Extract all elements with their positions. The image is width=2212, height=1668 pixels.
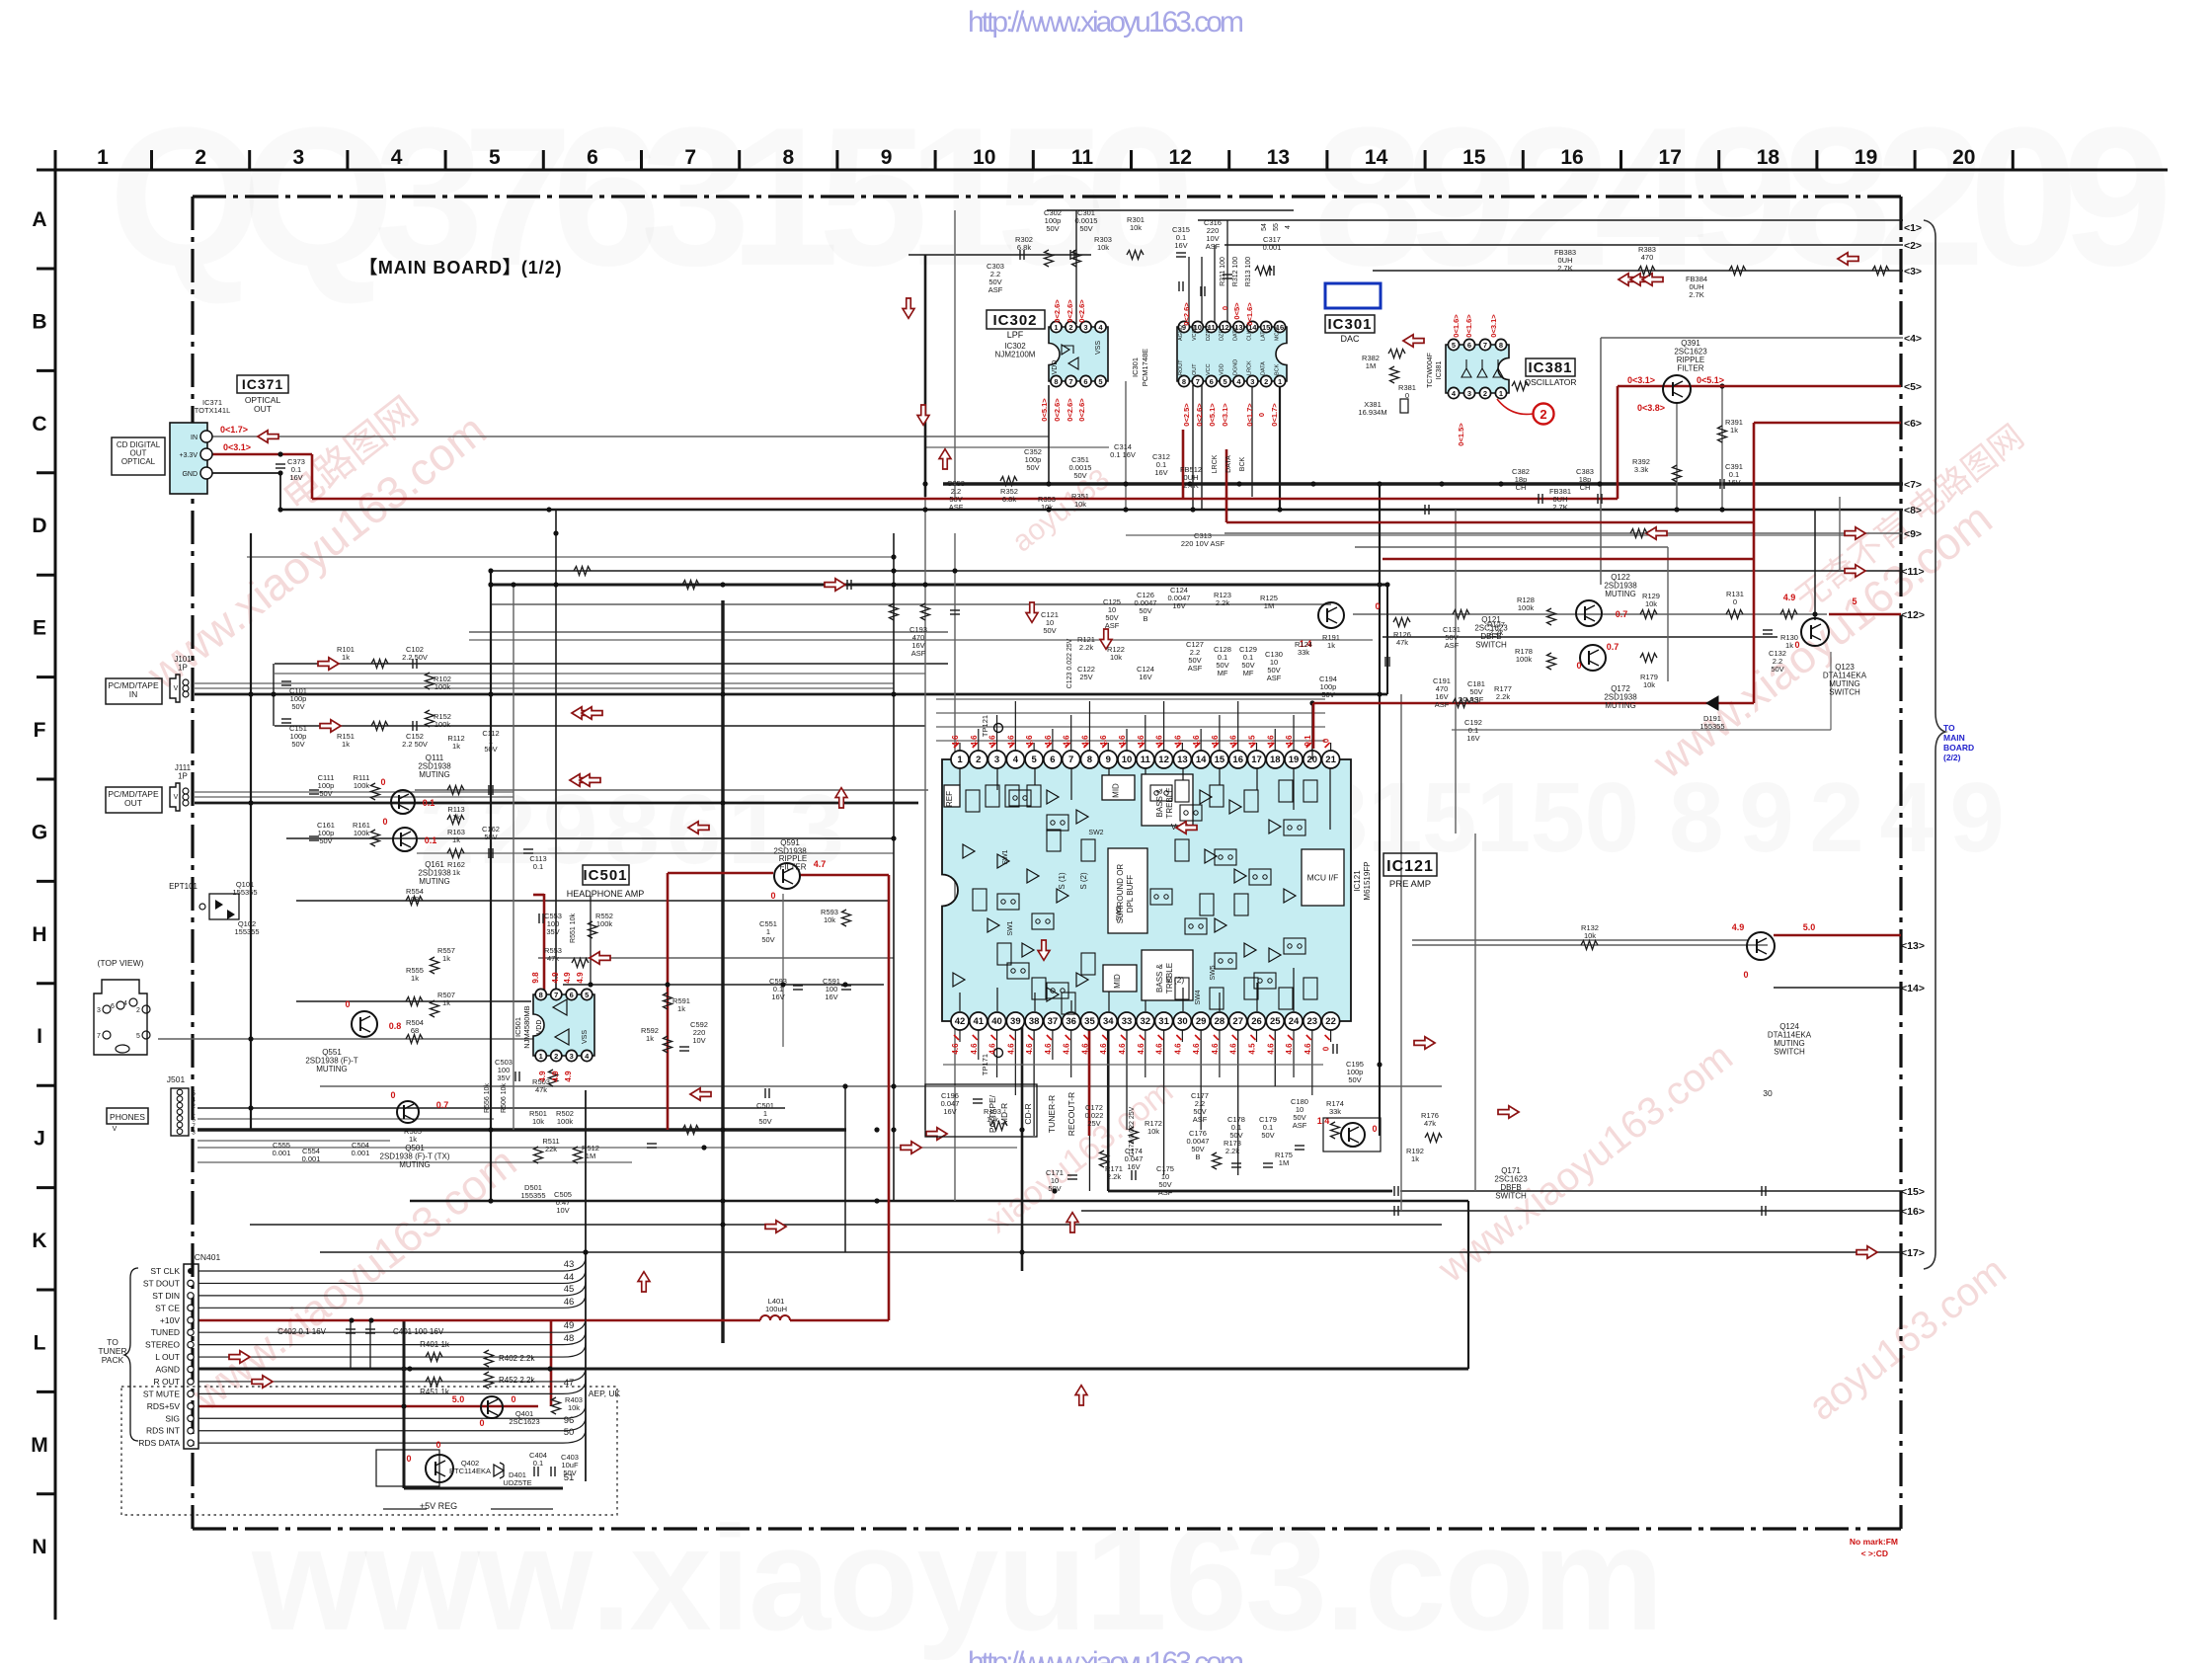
svg-text:IC501: IC501 <box>513 1017 522 1037</box>
svg-text:7: 7 <box>97 1033 101 1040</box>
svg-text:0<1.7>: 0<1.7> <box>1245 403 1254 427</box>
svg-text:VSS: VSS <box>1095 341 1102 355</box>
svg-text:4.6: 4.6 <box>951 735 960 747</box>
svg-text:6.8k: 6.8k <box>1002 495 1016 504</box>
svg-text:48: 48 <box>564 1333 575 1344</box>
svg-text:K: K <box>32 1230 46 1252</box>
svg-text:16V: 16V <box>771 993 784 1001</box>
svg-text:4.6: 4.6 <box>1006 1043 1015 1055</box>
svg-text:OUT: OUT <box>254 404 272 414</box>
svg-text:100k: 100k <box>434 682 451 691</box>
svg-text:0<2.6>: 0<2.6> <box>1195 403 1204 427</box>
svg-text:0<2.6>: 0<2.6> <box>1077 299 1086 323</box>
svg-text:0<2.6>: 0<2.6> <box>1053 398 1062 422</box>
svg-text:10k: 10k <box>1147 1127 1159 1136</box>
svg-text:5.0: 5.0 <box>452 1394 465 1404</box>
svg-text:4.6: 4.6 <box>1303 1043 1312 1055</box>
svg-text:LPF: LPF <box>1007 330 1024 340</box>
svg-text:DATA: DATA <box>1233 327 1239 341</box>
svg-text:15: 15 <box>1462 146 1486 169</box>
svg-text:2.2 50V: 2.2 50V <box>402 653 428 662</box>
svg-text:DGND: DGND <box>1233 359 1239 375</box>
svg-text:155355: 155355 <box>234 927 259 936</box>
svg-text:1k: 1k <box>452 868 460 877</box>
svg-text:FILTER: FILTER <box>1678 364 1704 373</box>
svg-text:10k: 10k <box>1130 223 1142 232</box>
svg-text:4.6: 4.6 <box>1173 1043 1182 1055</box>
svg-text:ST CE: ST CE <box>155 1303 180 1312</box>
svg-text:47k: 47k <box>547 954 559 963</box>
svg-text:16V: 16V <box>289 473 302 482</box>
svg-text:0.1: 0.1 <box>533 1459 543 1468</box>
svg-text:R313 100: R313 100 <box>1245 257 1252 286</box>
svg-text:26: 26 <box>1251 1016 1262 1027</box>
svg-text:0.7: 0.7 <box>436 1100 449 1110</box>
svg-text:16V: 16V <box>1154 468 1167 477</box>
svg-text:S (2): S (2) <box>1079 872 1088 890</box>
svg-text:ST DOUT: ST DOUT <box>143 1278 180 1288</box>
svg-text:100k: 100k <box>596 919 613 928</box>
svg-text:4.6: 4.6 <box>970 1043 979 1055</box>
svg-text:4.6: 4.6 <box>1285 735 1294 747</box>
svg-text:9: 9 <box>1106 755 1111 765</box>
svg-text:50V: 50V <box>1026 463 1039 472</box>
svg-text:B: B <box>1195 1152 1200 1161</box>
svg-text:220 10V ASF: 220 10V ASF <box>1181 539 1225 548</box>
svg-text:0: 0 <box>1221 306 1229 310</box>
svg-text:R506 10k: R506 10k <box>501 1083 508 1113</box>
svg-text:4: 4 <box>1013 755 1019 765</box>
svg-text:6: 6 <box>1083 377 1087 386</box>
svg-text:10k: 10k <box>568 1403 580 1412</box>
svg-text:38: 38 <box>1029 1016 1040 1027</box>
svg-text:100k: 100k <box>354 781 370 790</box>
svg-text:0.8: 0.8 <box>389 1021 402 1031</box>
svg-text:0: 0 <box>390 1090 395 1100</box>
svg-text:4.6: 4.6 <box>1006 735 1015 747</box>
svg-text:2SC1623: 2SC1623 <box>509 1417 539 1426</box>
svg-text:MAIN: MAIN <box>1943 733 1965 743</box>
svg-text:36: 36 <box>1066 1016 1076 1027</box>
svg-text:0<2.6>: 0<2.6> <box>1066 398 1074 422</box>
svg-text:34: 34 <box>1103 1016 1114 1027</box>
svg-text:13: 13 <box>1177 755 1188 765</box>
svg-text:UDZ5TE: UDZ5TE <box>503 1478 531 1487</box>
svg-text:1k: 1k <box>1785 641 1793 650</box>
svg-text:7: 7 <box>554 991 558 999</box>
svg-text:1M: 1M <box>1279 1158 1289 1167</box>
svg-text:SW1: SW1 <box>1002 849 1009 864</box>
svg-text:8: 8 <box>783 146 795 169</box>
svg-text:IN: IN <box>191 435 197 441</box>
svg-text:27: 27 <box>1232 1016 1243 1027</box>
svg-text:0: 0 <box>406 1454 411 1464</box>
svg-text:R OUT: R OUT <box>154 1377 180 1387</box>
svg-text:0<1.7>: 0<1.7> <box>1270 403 1279 427</box>
svg-text:0: 0 <box>380 777 385 787</box>
svg-text:12: 12 <box>1158 755 1169 765</box>
svg-text:8: 8 <box>1087 755 1092 765</box>
svg-text:< >:CD: < >:CD <box>1861 1549 1888 1558</box>
svg-text:0: 0 <box>479 1418 484 1428</box>
svg-text:5: 5 <box>489 146 501 169</box>
svg-text:35V: 35V <box>497 1073 510 1082</box>
svg-text:470: 470 <box>1641 253 1654 262</box>
svg-text:6: 6 <box>111 1003 115 1010</box>
svg-text:16V: 16V <box>1172 601 1185 610</box>
svg-text:0<3.1>: 0<3.1> <box>1221 403 1229 427</box>
svg-text:50V: 50V <box>484 833 497 841</box>
svg-text:MF: MF <box>1218 669 1228 677</box>
svg-text:SW2: SW2 <box>1088 830 1103 836</box>
svg-text:MID: MID <box>1113 974 1122 989</box>
svg-text:68: 68 <box>411 1026 419 1035</box>
svg-text:IC381: IC381 <box>1436 361 1443 380</box>
svg-text:32: 32 <box>1141 1016 1151 1027</box>
svg-text:14: 14 <box>1365 146 1388 169</box>
svg-text:1: 1 <box>957 755 963 765</box>
svg-text:6: 6 <box>570 991 574 999</box>
svg-text:SWITCH: SWITCH <box>1475 641 1507 650</box>
svg-text:10k: 10k <box>1584 931 1596 940</box>
svg-text:4.6: 4.6 <box>951 1043 960 1055</box>
svg-text:30: 30 <box>1177 1016 1188 1027</box>
svg-text:100k: 100k <box>354 829 370 837</box>
svg-text:DPL BUFF: DPL BUFF <box>1126 875 1135 913</box>
svg-text:155355: 155355 <box>1699 722 1724 731</box>
svg-text:33k: 33k <box>1329 1107 1341 1116</box>
svg-text:23: 23 <box>1307 1016 1318 1027</box>
svg-text:V: V <box>174 794 179 801</box>
svg-text:ASF: ASF <box>1188 664 1203 673</box>
svg-text:1k: 1k <box>342 740 350 749</box>
svg-text:10k: 10k <box>532 1117 544 1126</box>
svg-text:B: B <box>1143 614 1147 623</box>
svg-text:12: 12 <box>1169 146 1192 169</box>
svg-text:TUNER-R: TUNER-R <box>1047 1095 1057 1133</box>
svg-text:42: 42 <box>955 1016 966 1027</box>
svg-text:5: 5 <box>1031 755 1037 765</box>
svg-text:R556 10k: R556 10k <box>484 1083 491 1113</box>
svg-text:4.7: 4.7 <box>814 859 827 869</box>
svg-text:16V: 16V <box>1139 673 1151 681</box>
svg-text:44: 44 <box>564 1272 575 1283</box>
svg-text:HEADPHONE AMP: HEADPHONE AMP <box>567 889 645 899</box>
svg-text:16V: 16V <box>943 1107 956 1116</box>
svg-text:47k: 47k <box>1396 638 1408 647</box>
svg-text:DATA: DATA <box>1260 361 1266 375</box>
svg-text:4.6: 4.6 <box>1192 735 1201 747</box>
svg-text:4: 4 <box>123 1000 127 1007</box>
svg-text:4.6: 4.6 <box>1025 735 1034 747</box>
svg-text:100k: 100k <box>557 1117 574 1126</box>
svg-text:DATA: DATA <box>1225 455 1232 473</box>
svg-text:18: 18 <box>1270 755 1281 765</box>
svg-text:L: L <box>34 1331 46 1354</box>
svg-text:30: 30 <box>1763 1088 1773 1098</box>
svg-text:ST DIN: ST DIN <box>152 1291 180 1301</box>
svg-text:1: 1 <box>1499 389 1503 398</box>
svg-text:100k: 100k <box>1516 655 1533 664</box>
svg-text:H: H <box>32 923 46 946</box>
svg-text:0<2.6>: 0<2.6> <box>1077 398 1086 422</box>
svg-text:18: 18 <box>1757 146 1780 169</box>
svg-text:16V: 16V <box>825 993 837 1001</box>
svg-text:3: 3 <box>1467 389 1471 398</box>
svg-text:<12>: <12> <box>1901 609 1925 621</box>
svg-text:4.6: 4.6 <box>1229 735 1238 747</box>
svg-text:8: 8 <box>1182 377 1186 386</box>
svg-text:25V: 25V <box>1079 673 1092 681</box>
svg-text:0: 0 <box>511 1394 515 1404</box>
svg-text:4.6: 4.6 <box>1080 735 1089 747</box>
svg-text:4.6: 4.6 <box>1099 1043 1108 1055</box>
svg-text:MID: MID <box>1112 783 1121 798</box>
svg-text:DZPR: DZPR <box>1206 326 1212 341</box>
svg-text:4.6: 4.6 <box>1229 1043 1238 1055</box>
svg-text:1M: 1M <box>586 1152 595 1160</box>
svg-text:OUT: OUT <box>124 798 142 808</box>
svg-text:R551 10k: R551 10k <box>570 913 577 943</box>
svg-text:1k: 1k <box>409 1135 417 1144</box>
svg-text:33k: 33k <box>1298 648 1309 657</box>
svg-text:11: 11 <box>1071 146 1094 169</box>
svg-text:3: 3 <box>293 146 305 169</box>
svg-text:DZFL: DZFL <box>1220 327 1225 341</box>
svg-text:4.9: 4.9 <box>551 1071 560 1082</box>
svg-text:1k: 1k <box>342 653 350 662</box>
svg-text:0: 0 <box>1733 597 1737 606</box>
svg-text:50V: 50V <box>1348 1075 1361 1084</box>
svg-text:4.6: 4.6 <box>1118 735 1127 747</box>
svg-text:AGND: AGND <box>1178 325 1184 341</box>
svg-text:I: I <box>37 1025 42 1048</box>
svg-text:1k: 1k <box>1730 426 1738 435</box>
svg-text:2.2k: 2.2k <box>1216 598 1229 607</box>
svg-text:2: 2 <box>195 146 206 169</box>
svg-text:LRCK: LRCK <box>1212 454 1219 473</box>
svg-text:2.7K: 2.7K <box>1689 290 1703 299</box>
svg-text:17: 17 <box>1659 146 1682 169</box>
svg-text:50V: 50V <box>1261 1131 1274 1140</box>
svg-text:PRE AMP: PRE AMP <box>1389 879 1431 890</box>
svg-text:4.6: 4.6 <box>988 735 997 747</box>
svg-text:M: M <box>31 1434 48 1457</box>
svg-text:<14>: <14> <box>1901 983 1925 994</box>
svg-text:R452 2.2k: R452 2.2k <box>499 1376 535 1385</box>
svg-text:C: C <box>32 413 46 436</box>
svg-text:9: 9 <box>881 146 893 169</box>
svg-text:3: 3 <box>1083 323 1087 332</box>
svg-text:4: 4 <box>1285 225 1292 229</box>
svg-text:B: B <box>32 310 46 333</box>
svg-text:50V: 50V <box>758 1117 771 1126</box>
svg-text:0<1.6>: 0<1.6> <box>1452 314 1461 338</box>
svg-text:ASF: ASF <box>911 649 926 658</box>
svg-text:IC301: IC301 <box>1131 357 1140 377</box>
svg-text:MUTING: MUTING <box>1605 590 1636 598</box>
svg-text:0: 0 <box>1322 738 1331 743</box>
svg-text:VCC: VCC <box>1206 363 1212 375</box>
svg-text:0<5.1>: 0<5.1> <box>1040 398 1049 422</box>
svg-text:M61519FP: M61519FP <box>1363 861 1372 900</box>
svg-text:155355: 155355 <box>520 1191 545 1200</box>
svg-text:4.6: 4.6 <box>1063 1043 1071 1055</box>
svg-text:+10V: +10V <box>160 1315 180 1325</box>
svg-text:TC7W004F: TC7W004F <box>1427 353 1434 388</box>
svg-text:9.1: 9.1 <box>1303 735 1312 747</box>
svg-text:50: 50 <box>564 1427 575 1438</box>
svg-text:4.9: 4.9 <box>1732 922 1745 932</box>
svg-text:49: 49 <box>564 1320 575 1331</box>
svg-text:2.7K: 2.7K <box>1183 481 1198 490</box>
svg-text:4.5: 4.5 <box>1247 1043 1256 1055</box>
svg-text:4.6: 4.6 <box>1173 735 1182 747</box>
svg-text:IC371: IC371 <box>242 376 283 392</box>
svg-text:2.7K: 2.7K <box>1552 503 1567 512</box>
svg-text:19: 19 <box>1289 755 1300 765</box>
svg-text:19: 19 <box>1855 146 1877 169</box>
svg-text:4.6: 4.6 <box>1155 735 1164 747</box>
svg-text:0.001: 0.001 <box>352 1149 370 1157</box>
svg-text:<3>: <3> <box>1904 266 1922 278</box>
svg-text:1k: 1k <box>442 998 450 1007</box>
svg-text:2: 2 <box>1483 389 1487 398</box>
svg-text:NJM4580MB: NJM4580MB <box>522 1005 531 1048</box>
svg-text:AEP, UK: AEP, UK <box>589 1389 621 1398</box>
svg-text:20: 20 <box>1952 146 1975 169</box>
svg-text:0: 0 <box>345 999 350 1009</box>
svg-text:7: 7 <box>684 146 696 169</box>
svg-text:4.6: 4.6 <box>1063 735 1071 747</box>
svg-text:5: 5 <box>1452 341 1456 350</box>
svg-text:5: 5 <box>1852 596 1856 606</box>
svg-text:ASF: ASF <box>1445 641 1460 650</box>
svg-text:<6>: <6> <box>1904 418 1922 430</box>
svg-text:1: 1 <box>1054 323 1058 332</box>
svg-text:3: 3 <box>192 1130 196 1137</box>
svg-text:0<2.6>: 0<2.6> <box>1053 299 1062 323</box>
svg-text:G: G <box>32 821 47 843</box>
svg-text:5: 5 <box>585 991 589 999</box>
svg-text:29: 29 <box>1196 1016 1207 1027</box>
svg-text:50V: 50V <box>1079 224 1092 233</box>
svg-text:<5>: <5> <box>1904 381 1922 393</box>
svg-text:39: 39 <box>1010 1016 1021 1027</box>
svg-text:ASF: ASF <box>1193 1115 1208 1124</box>
svg-text:TP121: TP121 <box>981 715 989 737</box>
svg-text:V: V <box>174 685 179 692</box>
svg-text:0<3.1>: 0<3.1> <box>1627 375 1655 385</box>
svg-text:2.2k: 2.2k <box>1225 1147 1239 1155</box>
svg-text:4.6: 4.6 <box>1137 1043 1145 1055</box>
svg-text:50V: 50V <box>1771 665 1783 674</box>
svg-text:33: 33 <box>1122 1016 1133 1027</box>
svg-text:PCM1748E: PCM1748E <box>1141 349 1149 386</box>
svg-text:ROUT: ROUT <box>1178 359 1184 375</box>
svg-text:1k: 1k <box>677 1004 685 1013</box>
svg-text:FILTER: FILTER <box>780 863 807 872</box>
svg-text:3: 3 <box>570 1052 574 1061</box>
svg-text:<2>: <2> <box>1904 240 1922 252</box>
svg-text:10V: 10V <box>556 1206 569 1215</box>
svg-text:0<1.6>: 0<1.6> <box>1245 302 1254 326</box>
svg-text:3.3k: 3.3k <box>1634 465 1648 474</box>
svg-text:0<3.1>: 0<3.1> <box>1489 314 1498 338</box>
svg-text:RDS DATA: RDS DATA <box>138 1438 180 1448</box>
svg-text:10k: 10k <box>1074 500 1086 509</box>
svg-text:4: 4 <box>391 146 403 169</box>
svg-text:0.1: 0.1 <box>423 798 435 808</box>
svg-text:1k: 1k <box>452 835 460 844</box>
svg-text:55: 55 <box>1273 223 1280 231</box>
svg-text:2.7K: 2.7K <box>1557 264 1572 273</box>
svg-text:ASF: ASF <box>1293 1121 1307 1130</box>
svg-text:0<1.5>: 0<1.5> <box>1457 423 1465 446</box>
svg-text:<16>: <16> <box>1901 1206 1925 1218</box>
svg-text:43: 43 <box>564 1259 575 1270</box>
svg-text:RECOUT-R: RECOUT-R <box>1066 1092 1076 1136</box>
svg-text:50V: 50V <box>1073 471 1086 480</box>
svg-text:RDS INT: RDS INT <box>146 1426 180 1436</box>
svg-text:40: 40 <box>991 1016 1002 1027</box>
svg-text:25: 25 <box>1270 1016 1281 1027</box>
svg-text:PACK: PACK <box>102 1355 124 1365</box>
svg-text:LAT: LAT <box>1260 331 1266 341</box>
svg-text:5: 5 <box>1098 377 1102 386</box>
svg-text:4.6: 4.6 <box>988 1043 997 1055</box>
svg-text:1k: 1k <box>646 1034 654 1043</box>
svg-text:100k: 100k <box>434 720 451 729</box>
svg-text:4.6: 4.6 <box>1118 1043 1127 1055</box>
svg-text:【MAIN BOARD】(1/2): 【MAIN BOARD】(1/2) <box>359 258 562 278</box>
svg-text:4.6: 4.6 <box>1044 1043 1053 1055</box>
svg-text:16V: 16V <box>1127 1162 1140 1171</box>
svg-text:0<5>: 0<5> <box>1232 302 1241 320</box>
svg-text:0.1: 0.1 <box>533 862 543 871</box>
svg-text:R401 1k: R401 1k <box>420 1340 450 1349</box>
svg-text:GND: GND <box>182 471 197 478</box>
svg-text:47k: 47k <box>1424 1119 1436 1128</box>
svg-text:A: A <box>32 208 46 231</box>
svg-text:MF: MF <box>1243 669 1254 677</box>
svg-text:0: 0 <box>770 891 775 901</box>
svg-text:S (1): S (1) <box>1058 872 1066 890</box>
svg-text:SW1: SW1 <box>1007 920 1014 935</box>
svg-text:155355: 155355 <box>232 888 257 897</box>
svg-text:DAC: DAC <box>1340 334 1360 344</box>
svg-text:OUT: OUT <box>1192 363 1198 375</box>
svg-text:ASF: ASF <box>1435 700 1450 709</box>
svg-text:SIG: SIG <box>165 1413 180 1423</box>
svg-text:D: D <box>32 515 46 537</box>
svg-text:SWITCH: SWITCH <box>1495 1192 1527 1201</box>
svg-text:BASS &: BASS & <box>1155 963 1164 993</box>
svg-text:5: 5 <box>136 1033 140 1040</box>
svg-text:IC302: IC302 <box>992 312 1037 329</box>
svg-text:<8>: <8> <box>1904 505 1922 516</box>
svg-text:http://www.xiaoyu163.com: http://www.xiaoyu163.com <box>968 1646 1244 1663</box>
svg-text:100uH: 100uH <box>765 1305 787 1313</box>
svg-text:IC501: IC501 <box>583 867 627 884</box>
svg-text:SW4: SW4 <box>1195 990 1202 1004</box>
svg-text:2: 2 <box>1264 377 1268 386</box>
svg-text:MUTING: MUTING <box>399 1160 431 1169</box>
svg-text:10: 10 <box>973 146 995 169</box>
svg-text:46: 46 <box>564 1297 575 1308</box>
svg-text:8 9 2 4 9: 8 9 2 4 9 <box>1669 762 2005 873</box>
svg-text:50V: 50V <box>291 702 304 711</box>
